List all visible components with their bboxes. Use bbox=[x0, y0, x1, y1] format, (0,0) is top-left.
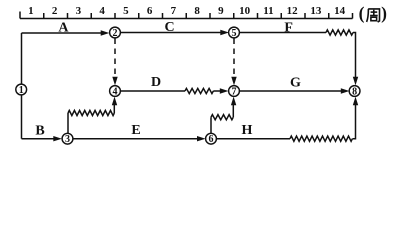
svg-text:E: E bbox=[131, 123, 140, 138]
svg-text:4: 4 bbox=[113, 86, 118, 97]
wire: vertical line from activity A corner through node 1 to activity B corner bbox=[21, 33, 23, 139]
svg-text:12: 12 bbox=[287, 5, 299, 17]
node 2 bbox=[110, 27, 121, 39]
ruler week numbers 1-14 bbox=[28, 5, 345, 17]
svg-text:10: 10 bbox=[239, 5, 251, 17]
zigzag float link node 6 up to node 7 bbox=[210, 117, 212, 133]
activity D arrow with free-float zigzag (node 4 to node 7) bbox=[120, 90, 185, 92]
time scale ruler line bbox=[20, 18, 353, 20]
svg-text:5: 5 bbox=[232, 28, 237, 39]
svg-text:7: 7 bbox=[232, 86, 237, 97]
svg-text:(: ( bbox=[359, 3, 365, 23]
svg-text:13: 13 bbox=[310, 5, 322, 17]
svg-text:7: 7 bbox=[171, 5, 177, 17]
svg-text:B: B bbox=[35, 123, 44, 138]
node 7 bbox=[229, 86, 240, 98]
svg-text:C: C bbox=[164, 20, 174, 35]
svg-text:A: A bbox=[58, 21, 69, 36]
dashed dummy arrow node 5 to node 7 bbox=[233, 39, 235, 77]
node 6 bbox=[206, 133, 217, 145]
svg-text:G: G bbox=[290, 76, 301, 91]
svg-text:D: D bbox=[151, 75, 161, 90]
svg-text:8: 8 bbox=[352, 86, 357, 97]
dashed dummy arrow node 2 to node 4 bbox=[114, 39, 116, 77]
svg-text:9: 9 bbox=[218, 5, 224, 17]
ruler tick marks bbox=[20, 12, 353, 19]
svg-text:6: 6 bbox=[147, 5, 153, 17]
svg-text:1: 1 bbox=[28, 5, 34, 17]
zigzag float link node 3 up to node 4 bbox=[67, 113, 69, 134]
node 5 bbox=[229, 27, 240, 39]
svg-text:8: 8 bbox=[194, 5, 200, 17]
svg-text:2: 2 bbox=[113, 28, 118, 39]
activity H arrow with free-float zigzag (node 6 to node 8) bbox=[216, 138, 290, 140]
node 8 bbox=[349, 86, 360, 98]
svg-text:2: 2 bbox=[52, 5, 58, 17]
activity G arrow (node 7 to node 8) bbox=[239, 90, 341, 92]
svg-text:): ) bbox=[381, 3, 387, 23]
activity B arrow (node 1 to node 3) bbox=[22, 138, 55, 140]
node 4 bbox=[110, 86, 121, 98]
svg-text:5: 5 bbox=[123, 5, 129, 17]
svg-text:14: 14 bbox=[334, 5, 346, 17]
activity E arrow (node 3 to node 6) bbox=[73, 138, 197, 140]
svg-text:3: 3 bbox=[76, 5, 82, 17]
svg-text:4: 4 bbox=[99, 5, 105, 17]
activity A arrow (node 1 to node 2) bbox=[22, 32, 102, 34]
activity C arrow (node 2 to node 5) bbox=[120, 32, 220, 34]
svg-text:F: F bbox=[284, 21, 293, 36]
svg-text:6: 6 bbox=[209, 134, 214, 145]
svg-text:11: 11 bbox=[263, 5, 273, 17]
node 3 bbox=[62, 133, 73, 145]
activity F arrow with free-float zigzag (node 5 to node 8) bbox=[239, 32, 326, 34]
svg-text:3: 3 bbox=[65, 134, 70, 145]
node 1 bbox=[16, 84, 27, 96]
unit label character zhou (week) bbox=[367, 9, 380, 22]
svg-text:1: 1 bbox=[19, 85, 24, 96]
svg-text:H: H bbox=[242, 123, 253, 138]
